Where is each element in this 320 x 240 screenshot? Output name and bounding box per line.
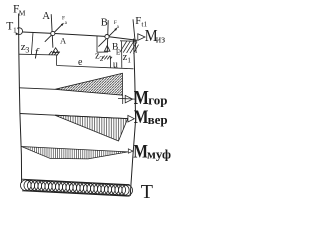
- svg-text:е: е: [78, 57, 83, 68]
- svg-text:2: 2: [100, 54, 104, 63]
- step line below support A: [56, 55, 58, 66]
- label Mgor: [134, 86, 168, 108]
- torque T1 arc symbol: [16, 28, 23, 36]
- z2 hub left line: [96, 36, 98, 53]
- support B triangle: [104, 46, 110, 52]
- right frame line: [130, 39, 135, 196]
- Mver baseline arrow: [128, 115, 134, 122]
- node A circle: [51, 31, 55, 35]
- label Mver: [134, 107, 168, 128]
- tiny reaction label at A: [62, 16, 68, 27]
- shaft line: [23, 32, 137, 40]
- force F_t1 line: [133, 19, 136, 53]
- support B ground hatch: [102, 56, 112, 60]
- svg-text:М: М: [134, 86, 149, 108]
- label T1: [6, 20, 17, 34]
- svg-text:3: 3: [25, 46, 29, 55]
- z3 hub right line: [31, 32, 33, 54]
- dimension line e/u/z1: [57, 66, 134, 69]
- Mver top edge: [55, 115, 128, 118]
- svg-text:А: А: [60, 35, 67, 45]
- label F_M: [13, 3, 26, 17]
- Mgor diagram triangle: [55, 73, 123, 95]
- svg-text:М: М: [133, 141, 148, 162]
- Mgor axis stub: [118, 97, 135, 100]
- z3 box bottom line: [19, 53, 58, 56]
- reaction arrow at A: [45, 23, 64, 42]
- svg-text:из: из: [156, 35, 165, 46]
- Mgor right edge extension: [122, 95, 124, 104]
- tiny reaction label at B: [114, 20, 120, 30]
- support A triangle: [53, 48, 59, 53]
- svg-text:вер: вер: [148, 112, 168, 127]
- moment M_iz arrow: [138, 34, 145, 41]
- Mver diagram triangle: [55, 115, 128, 141]
- label Mmuf: [133, 141, 171, 162]
- svg-text:1: 1: [127, 55, 131, 64]
- z2 hub bottom line: [97, 51, 108, 53]
- Mmuf diagram shape: [22, 147, 129, 159]
- svg-text:u: u: [113, 59, 118, 70]
- label z2: [95, 51, 104, 64]
- label M_iz: [145, 27, 165, 46]
- gear z1 hatch patch: [120, 41, 139, 54]
- reaction arrow at B: [98, 28, 117, 47]
- svg-text:М: М: [134, 107, 149, 128]
- svg-text:М: М: [19, 9, 26, 18]
- label z3: [21, 41, 30, 55]
- dimension vertical left of z1: [121, 41, 123, 68]
- Mgor baseline arrow: [125, 95, 132, 102]
- svg-text:муф: муф: [147, 147, 171, 162]
- torque T chain pattern: [20, 180, 132, 196]
- force line at B: [106, 20, 109, 51]
- support A ground hatch: [49, 51, 60, 55]
- label F_t1: [135, 15, 147, 28]
- torque T band outline: [22, 179, 130, 196]
- force F_M line merging into left frame line: [19, 14, 22, 184]
- force line at A: [51, 14, 53, 48]
- svg-text:гор: гор: [148, 93, 167, 108]
- dimension vertical left of u: [109, 56, 111, 67]
- svg-text:Т: Т: [141, 181, 153, 203]
- Mgor baseline: [19, 88, 55, 90]
- label z1: [123, 52, 132, 64]
- Mmuf end arrow: [128, 149, 133, 153]
- node B circle: [105, 35, 109, 39]
- gear patch top line: [120, 40, 137, 42]
- Mver baseline: [20, 114, 55, 116]
- svg-text:В: В: [101, 17, 108, 28]
- svg-text:А: А: [42, 11, 50, 22]
